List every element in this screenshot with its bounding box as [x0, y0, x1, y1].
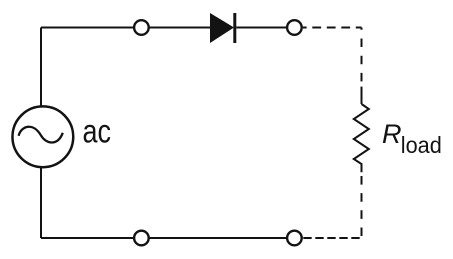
diode D1 triangle [210, 13, 234, 43]
terminal circle top-left [134, 20, 149, 35]
wire bottom middle [149, 237, 286, 239]
wire left vertical lower [40, 167, 42, 238]
terminal circle bottom-right [287, 231, 302, 246]
dashed wire right vertical lower [361, 176, 363, 237]
wire left vertical upper [40, 28, 42, 107]
svg-text:ac: ac [83, 114, 112, 151]
dashed wire bottom-right horizontal [303, 237, 360, 239]
wire top middle (to diode) [149, 27, 211, 29]
dashed wire top-right horizontal [303, 27, 362, 29]
svg-text:load: load [401, 132, 442, 158]
resistor Rload top lead [361, 87, 363, 104]
ac source V1 circle [12, 106, 73, 167]
wire top-left horizontal [41, 27, 134, 29]
terminal circle bottom-left [134, 231, 149, 246]
resistor Rload zigzag [354, 104, 369, 172]
svg-text:R: R [382, 119, 402, 149]
wire diode to terminal [236, 27, 286, 29]
terminal circle top-right [287, 20, 302, 35]
wire bottom-left horizontal [41, 237, 134, 239]
diode D1 cathode bar [233, 13, 236, 43]
dashed wire right vertical upper [361, 28, 363, 84]
ac source V1 sine wave [19, 127, 63, 143]
